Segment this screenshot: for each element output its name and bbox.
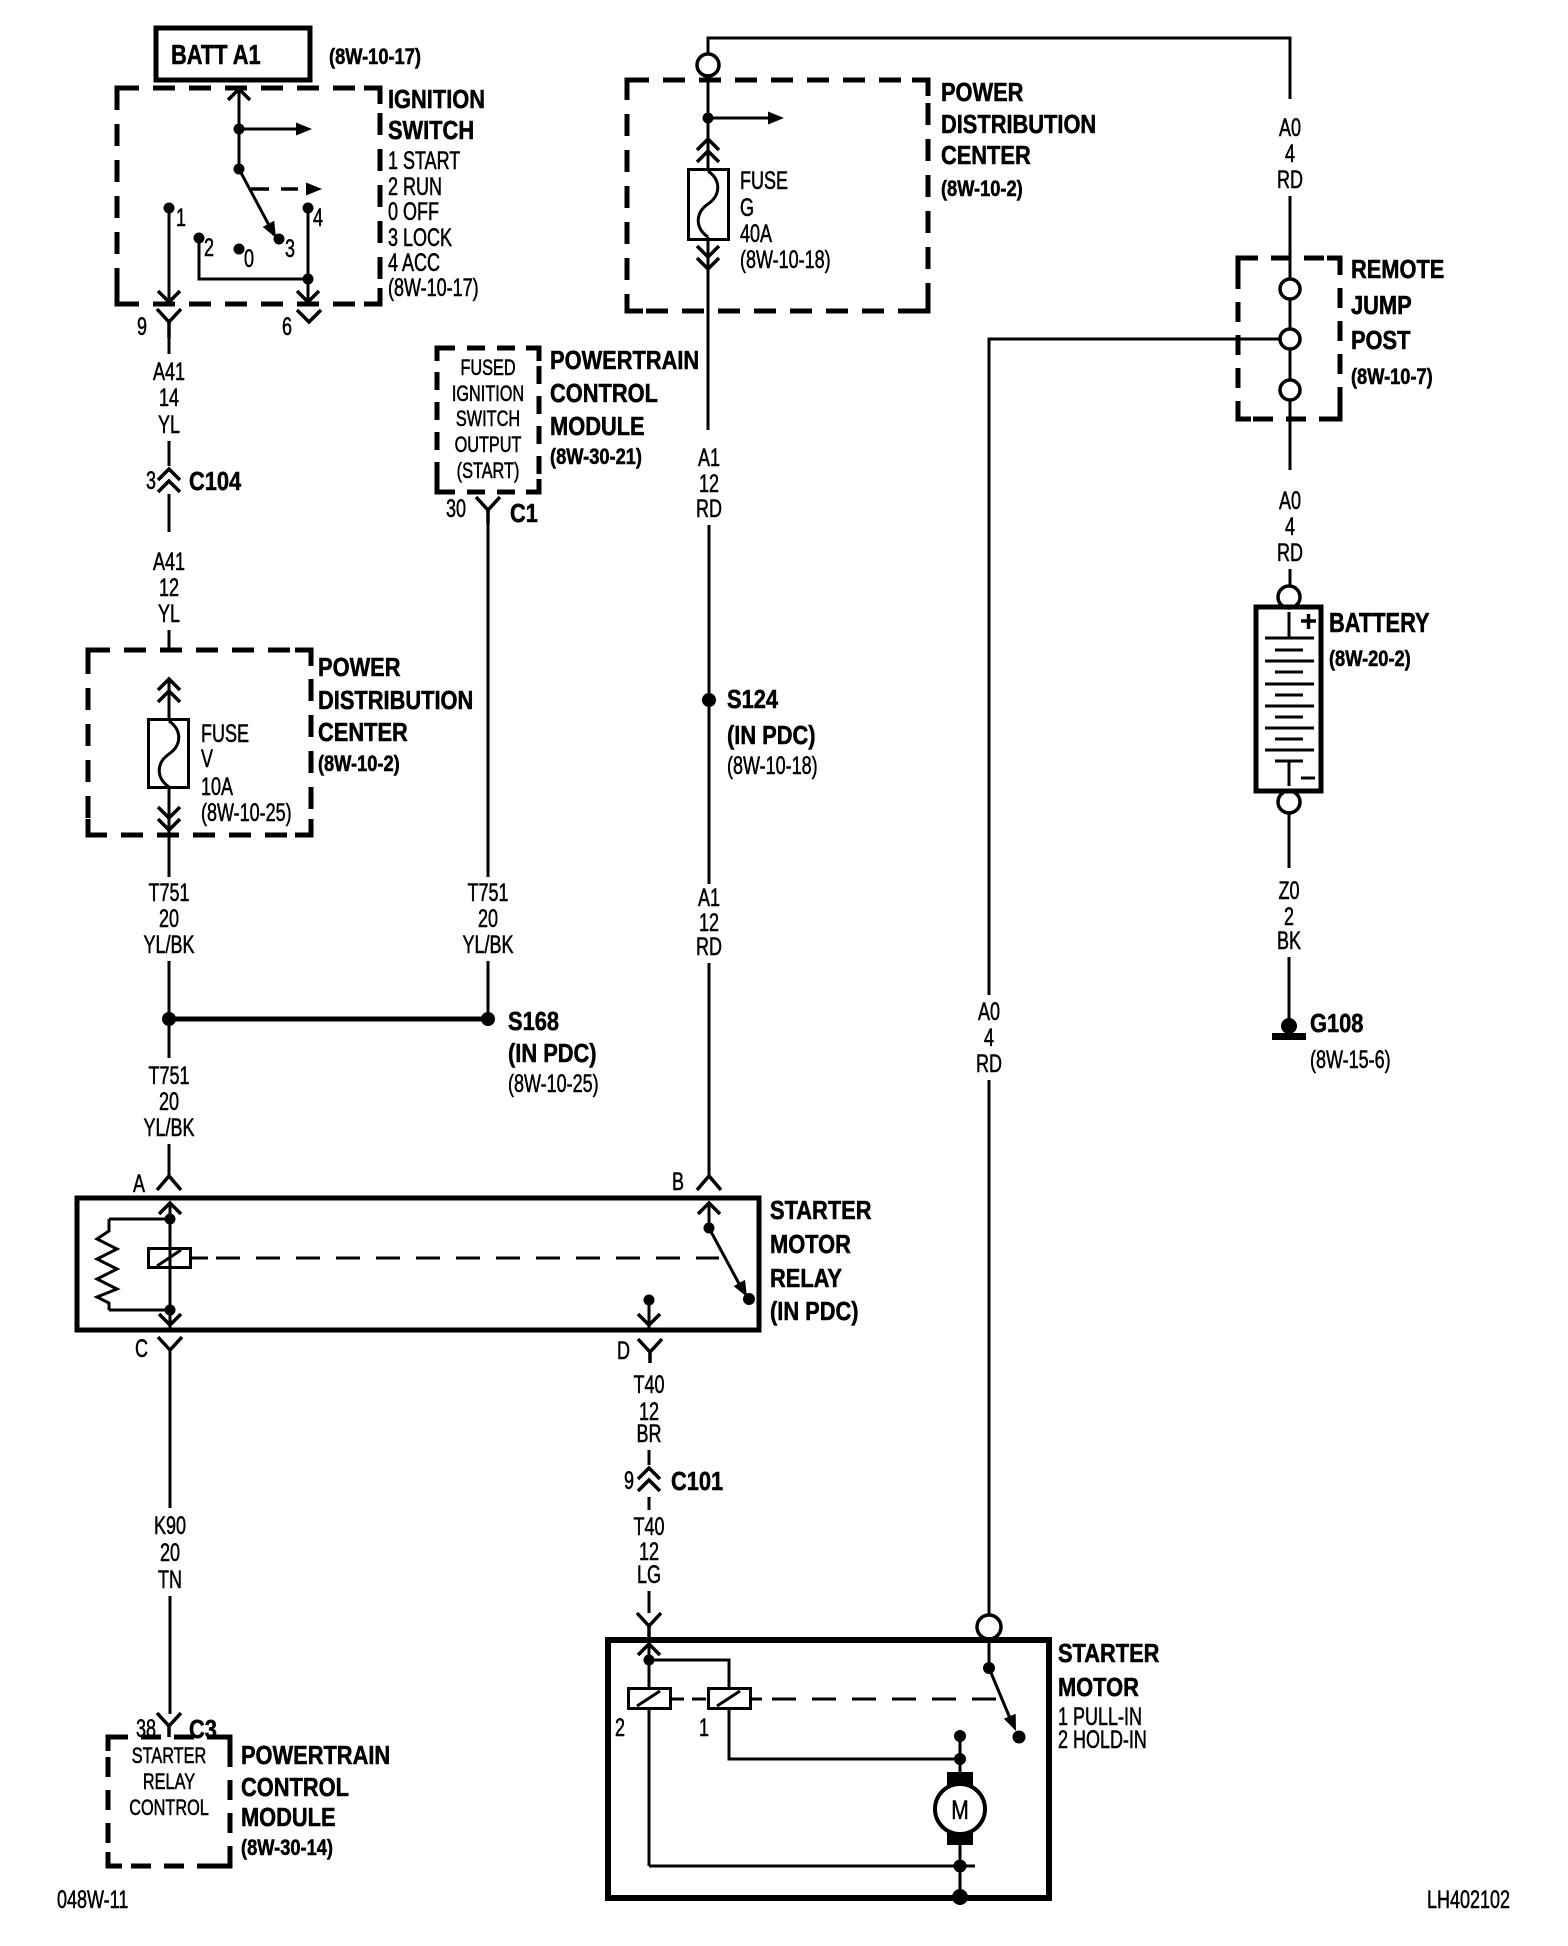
- remote jump post dashed outline: [1238, 258, 1340, 419]
- svg-text:G108: G108: [1310, 1009, 1363, 1038]
- connector C104: [158, 469, 180, 492]
- label ignition switch: [388, 85, 485, 301]
- wire contact 1 to pin 9: [158, 208, 180, 302]
- svg-text:3: 3: [146, 466, 156, 495]
- splice S124: [702, 693, 716, 707]
- relay pin B entry: [698, 1203, 720, 1228]
- wire A0 to starter motor: [988, 1080, 991, 1615]
- svg-text:C104: C104: [189, 467, 242, 496]
- wire A0 below jump post: [1289, 400, 1292, 470]
- ignition switch wiper arm: [239, 169, 276, 238]
- svg-text:(8W-10-18): (8W-10-18): [740, 245, 831, 274]
- wire K90 to PCM: [169, 1596, 172, 1714]
- value label (8W-10-17) for BATT A1: [329, 46, 421, 70]
- wire out of fuse G: [707, 237, 710, 430]
- contact 4 of ignition switch: [303, 203, 314, 214]
- svg-text:0: 0: [244, 244, 254, 273]
- wire A1 to splice S124: [708, 525, 711, 693]
- relay pin D exit: [638, 1300, 660, 1330]
- wire hold-in coil to case ground: [649, 1708, 975, 1866]
- svg-text:IGNITION: IGNITION: [388, 85, 485, 114]
- starter motor M1: [935, 1772, 985, 1845]
- svg-text:20: 20: [160, 1538, 180, 1567]
- svg-text:4: 4: [1285, 139, 1295, 168]
- svg-text:RD: RD: [696, 932, 722, 961]
- svg-text:POST: POST: [1351, 326, 1411, 355]
- contact 0 of ignition switch: [234, 244, 245, 255]
- label remote jump post: [1351, 255, 1444, 389]
- wire label A0 4 RD (top right): [1277, 113, 1303, 194]
- svg-text:T751: T751: [468, 878, 509, 907]
- label S168 (IN PDC): [508, 1007, 599, 1097]
- connector pin B of starter motor relay: [697, 1176, 721, 1190]
- value label fuse G 40A: [740, 166, 831, 274]
- svg-text:BK: BK: [1277, 926, 1301, 955]
- connector pin A of starter motor relay: [157, 1176, 181, 1190]
- connector battery feed at PDC: [697, 54, 719, 76]
- svg-text:RD: RD: [696, 494, 722, 523]
- svg-text:S168: S168: [508, 1007, 559, 1036]
- svg-text:4: 4: [984, 1023, 994, 1052]
- svg-text:20: 20: [159, 1087, 179, 1116]
- svg-text:RELAY: RELAY: [143, 1770, 195, 1795]
- wire A0 to battery positive: [1289, 569, 1292, 586]
- wire T751 to splice: [168, 961, 171, 1013]
- wire motor to case ground: [959, 1845, 962, 1897]
- starter motor outline: [608, 1640, 1049, 1898]
- svg-text:(IN PDC): (IN PDC): [508, 1039, 597, 1068]
- svg-text:YL/BK: YL/BK: [143, 930, 194, 959]
- ignition switch dashed actuator arrow: [251, 183, 322, 196]
- starter motor case ground junction: [952, 1889, 968, 1905]
- hold-in coil 2 of starter solenoid: [629, 1689, 685, 1709]
- starter switch contact: [1013, 1731, 1026, 1744]
- label battery: [1329, 607, 1430, 671]
- svg-text:30: 30: [446, 494, 466, 523]
- wire Z0 to ground: [1288, 957, 1291, 1020]
- arrow feed tap: [708, 112, 784, 125]
- label starter motor relay: [770, 1196, 871, 1326]
- svg-text:T40: T40: [634, 1370, 665, 1399]
- relay pin D junction: [644, 1295, 655, 1306]
- relay switch contact: [743, 1293, 755, 1305]
- svg-text:1 START: 1 START: [388, 146, 460, 175]
- wire label T751 20 YL/BK (middle): [463, 878, 514, 959]
- svg-text:12: 12: [159, 573, 179, 602]
- wire T751 to splice S168: [487, 961, 490, 1013]
- junction ignition switch rotor: [234, 164, 245, 175]
- pull-in coil 1 of starter solenoid: [709, 1689, 763, 1709]
- wire label A41 12 YL: [153, 547, 185, 628]
- contact 1 of ignition switch: [164, 203, 175, 214]
- svg-text:K90: K90: [154, 1511, 186, 1540]
- svg-text:(8W-30-21): (8W-30-21): [550, 446, 642, 470]
- wire label A41 14 YL: [153, 357, 185, 439]
- label starter motor: [1058, 1639, 1159, 1753]
- wire A1 below S124: [708, 707, 711, 884]
- wire label K90 20 TN: [154, 1511, 186, 1594]
- svg-text:2 HOLD-IN: 2 HOLD-IN: [1058, 1725, 1147, 1754]
- connector into fuse V: [158, 679, 180, 702]
- solenoid actuation dashed link: [692, 1698, 999, 1701]
- connector into fuse G: [697, 139, 719, 162]
- pin 9 label of C101: [624, 1466, 634, 1495]
- svg-text:A0: A0: [978, 997, 1000, 1026]
- starter motor relay outline: [77, 1198, 759, 1330]
- svg-text:(8W-10-17): (8W-10-17): [329, 46, 421, 70]
- svg-text:RD: RD: [1277, 538, 1303, 567]
- starter solenoid input entry: [638, 1644, 660, 1689]
- svg-text:4: 4: [313, 203, 323, 232]
- pin C label: [135, 1334, 148, 1363]
- svg-text:40A: 40A: [740, 219, 772, 248]
- connector pin 9 of ignition switch: [157, 309, 181, 338]
- svg-text:STARTER: STARTER: [1058, 1639, 1159, 1668]
- svg-text:(8W-10-25): (8W-10-25): [508, 1069, 599, 1098]
- pin D label: [617, 1336, 630, 1365]
- sheet code LH402102: [1427, 1885, 1510, 1914]
- svg-text:(8W-10-17): (8W-10-17): [388, 273, 479, 302]
- label power distribution center (left): [318, 653, 473, 776]
- label fused ignition switch output (start): [452, 356, 524, 484]
- svg-text:T751: T751: [148, 878, 189, 907]
- svg-text:V: V: [201, 744, 213, 773]
- svg-text:MOTOR: MOTOR: [1058, 1673, 1139, 1702]
- svg-text:DISTRIBUTION: DISTRIBUTION: [318, 686, 473, 715]
- connector pin C of starter motor relay: [158, 1337, 182, 1350]
- svg-text:SWITCH: SWITCH: [388, 116, 474, 145]
- value label fuse V 10A: [201, 719, 292, 827]
- connector out of fuse G: [697, 246, 719, 269]
- svg-text:10A: 10A: [201, 772, 233, 801]
- junction contacts 2 and 4: [303, 274, 314, 285]
- svg-text:(8W-10-18): (8W-10-18): [727, 751, 818, 780]
- svg-text:YL: YL: [158, 599, 180, 628]
- wire A41 into PDC: [168, 630, 171, 651]
- pin B label: [672, 1167, 684, 1196]
- svg-text:A1: A1: [698, 443, 720, 472]
- label starter relay control: [129, 1744, 209, 1821]
- svg-text:IGNITION: IGNITION: [452, 382, 524, 407]
- wire between jump post terminals 1-2: [1289, 299, 1292, 329]
- svg-text:T751: T751: [148, 1061, 189, 1090]
- wire A0 to remote jump post: [1289, 196, 1292, 279]
- svg-text:OUTPUT: OUTPUT: [455, 433, 522, 458]
- battery feed box BATT A1: [156, 28, 310, 80]
- svg-text:REMOTE: REMOTE: [1351, 255, 1444, 284]
- contact 3 of ignition switch: [274, 234, 285, 245]
- wire into fuse V: [168, 679, 171, 720]
- pin A label: [133, 1169, 145, 1198]
- svg-text:DISTRIBUTION: DISTRIBUTION: [941, 110, 1096, 139]
- svg-text:A0: A0: [1279, 113, 1301, 142]
- label C1: [510, 499, 538, 528]
- svg-text:A41: A41: [153, 547, 185, 576]
- svg-text:B: B: [672, 1167, 684, 1196]
- pin 3 label of C104: [146, 466, 156, 495]
- svg-text:C1: C1: [510, 499, 538, 528]
- svg-text:(8W-15-6): (8W-15-6): [1310, 1045, 1391, 1074]
- svg-text:POWER: POWER: [941, 78, 1023, 107]
- pin 9 label: [137, 312, 147, 341]
- resistor of starter motor relay: [97, 1219, 170, 1310]
- connector pin 6 of ignition switch: [297, 310, 321, 322]
- svg-text:6: 6: [282, 312, 292, 341]
- svg-text:Z0: Z0: [1279, 876, 1300, 905]
- wire T40 to starter motor: [648, 1591, 651, 1613]
- svg-text:1: 1: [699, 1713, 709, 1742]
- remote jump post terminal 3: [1280, 380, 1300, 400]
- svg-text:CENTER: CENTER: [318, 718, 408, 747]
- battery B1 body: [1256, 607, 1321, 791]
- connector out of fuse V: [158, 807, 180, 830]
- svg-text:BATT A1: BATT A1: [171, 39, 261, 70]
- wire battery feed top: [708, 38, 1290, 99]
- label G108: [1310, 1009, 1391, 1073]
- svg-text:G: G: [740, 193, 754, 222]
- wire label A0 4 RD (right middle): [1277, 486, 1303, 567]
- starter motor contact: [954, 1730, 966, 1742]
- svg-text:3: 3: [285, 234, 295, 263]
- fused ignition switch output dashed outline: [437, 348, 539, 492]
- ground G108: [1272, 1018, 1306, 1040]
- svg-text:POWER: POWER: [318, 653, 400, 682]
- contact 2 of ignition switch: [194, 233, 205, 244]
- svg-text:CONTROL: CONTROL: [241, 1773, 349, 1802]
- svg-text:0 OFF: 0 OFF: [388, 197, 439, 226]
- wire ignition switch feed to BATT A1: [228, 88, 250, 129]
- relay coil upper junction: [165, 1214, 176, 1225]
- svg-text:MODULE: MODULE: [550, 412, 645, 441]
- svg-text:BR: BR: [637, 1419, 662, 1448]
- svg-text:2: 2: [615, 1713, 625, 1742]
- wire ignition switch rotor: [238, 129, 241, 169]
- wire label A1 12 RD (lower): [696, 883, 722, 961]
- svg-text:FUSED: FUSED: [460, 356, 515, 381]
- connector pin D of starter motor relay: [638, 1339, 662, 1363]
- wire motor branch: [959, 1736, 962, 1772]
- svg-text:20: 20: [159, 904, 179, 933]
- pin label 2: [204, 233, 214, 262]
- label C104: [189, 467, 242, 496]
- svg-text:FUSE: FUSE: [740, 166, 788, 195]
- svg-text:JUMP: JUMP: [1351, 291, 1412, 320]
- connector C1 pin 30: [476, 497, 500, 524]
- svg-text:STARTER: STARTER: [132, 1744, 206, 1769]
- junction motor and hold-in ground: [954, 1860, 967, 1873]
- wire splice link to S168: [169, 1017, 488, 1022]
- wire contact 4 to pin 6: [297, 208, 319, 302]
- svg-text:TN: TN: [158, 1565, 182, 1594]
- svg-text:A41: A41: [153, 357, 185, 386]
- pin 38 label: [136, 1714, 156, 1743]
- svg-text:(8W-10-2): (8W-10-2): [941, 178, 1023, 202]
- wire A41 to C104: [168, 441, 171, 466]
- wire pull-in coil to motor branch: [729, 1708, 954, 1759]
- wire K90 from relay pin C: [169, 1350, 172, 1508]
- pin label 0: [244, 244, 254, 273]
- svg-text:C3: C3: [189, 1715, 217, 1744]
- sheet number 048W-11: [57, 1885, 128, 1914]
- relay switch pivot: [704, 1223, 715, 1234]
- svg-text:MOTOR: MOTOR: [770, 1230, 851, 1259]
- arrow ignition switch run feed: [239, 123, 312, 136]
- wire T751 to relay pin A: [168, 1144, 171, 1176]
- wire between jump post terminals 2-3: [1289, 349, 1292, 380]
- powertrain control module input dashed outline: [108, 1737, 230, 1866]
- fuse G body: [689, 170, 729, 240]
- svg-text:YL/BK: YL/BK: [463, 930, 514, 959]
- relay switch arm: [709, 1228, 747, 1297]
- svg-text:LH402102: LH402102: [1427, 1885, 1510, 1914]
- svg-text:20: 20: [478, 904, 498, 933]
- svg-text:POWERTRAIN: POWERTRAIN: [241, 1741, 390, 1770]
- svg-text:CONTROL: CONTROL: [129, 1796, 209, 1821]
- svg-text:C: C: [135, 1334, 148, 1363]
- pin label 4: [313, 203, 323, 232]
- wire tap to starter motor feed: [989, 339, 1280, 995]
- relay coil wire: [169, 1219, 172, 1310]
- power distribution center dashed outline (top): [627, 80, 928, 311]
- power distribution center dashed outline (left): [88, 650, 311, 835]
- wire A41 from pin 9: [168, 338, 171, 354]
- wire label T40 12 LG: [634, 1512, 665, 1589]
- label powertrain control module (bottom): [241, 1741, 390, 1860]
- pin label 3: [285, 234, 295, 263]
- label C3: [189, 1715, 217, 1744]
- relay actuation dashed link: [216, 1257, 719, 1260]
- svg-text:D: D: [617, 1336, 630, 1365]
- svg-text:(8W-30-14): (8W-30-14): [241, 1837, 333, 1861]
- splice S168: [481, 1012, 495, 1026]
- pin 30 label: [446, 494, 466, 523]
- svg-text:2: 2: [204, 233, 214, 262]
- wire label T751 20 YL/BK (upper left): [143, 878, 194, 959]
- svg-text:(8W-20-2): (8W-20-2): [1329, 648, 1411, 672]
- relay pin A entry: [159, 1203, 181, 1219]
- svg-text:RELAY: RELAY: [770, 1264, 842, 1293]
- svg-text:S124: S124: [727, 685, 779, 714]
- fuse V body: [149, 720, 189, 788]
- wire T751 from C1: [487, 524, 490, 877]
- pin 6 label: [282, 312, 292, 341]
- battery negative terminal: [1278, 791, 1300, 813]
- svg-text:YL/BK: YL/BK: [143, 1113, 194, 1142]
- svg-text:048W-11: 048W-11: [57, 1885, 128, 1914]
- pin label 1 pull-in: [699, 1713, 709, 1742]
- remote jump post terminal 1: [1280, 279, 1300, 299]
- svg-text:BATTERY: BATTERY: [1329, 607, 1430, 638]
- wire feed to fuse G: [707, 76, 710, 170]
- battery positive terminal: [1278, 586, 1300, 608]
- svg-text:LG: LG: [637, 1560, 661, 1589]
- svg-text:RD: RD: [976, 1049, 1002, 1078]
- svg-text:CONTROL: CONTROL: [550, 379, 658, 408]
- relay coil lower junction: [165, 1305, 176, 1316]
- connector battery terminal of starter motor: [977, 1615, 1001, 1639]
- svg-text:STARTER: STARTER: [770, 1196, 871, 1225]
- wire label T40 12 BR: [634, 1370, 665, 1448]
- wire T751 below splice: [168, 1026, 171, 1058]
- solenoid input junction: [644, 1655, 655, 1666]
- label power distribution center (top): [941, 78, 1096, 201]
- svg-text:CENTER: CENTER: [941, 141, 1031, 170]
- starter switch arm: [989, 1668, 1016, 1731]
- svg-text:9: 9: [624, 1466, 634, 1495]
- svg-text:C101: C101: [671, 1467, 723, 1496]
- svg-text:4: 4: [1285, 512, 1295, 541]
- connector starter motor solenoid input: [637, 1613, 661, 1640]
- svg-text:SWITCH: SWITCH: [456, 407, 520, 432]
- svg-text:9: 9: [137, 312, 147, 341]
- label S124 (IN PDC): [727, 685, 818, 779]
- label C101: [671, 1467, 723, 1496]
- wire label A0 4 RD (starter feed): [976, 997, 1002, 1078]
- svg-text:(8W-10-2): (8W-10-2): [318, 753, 400, 777]
- wire T40 to C101: [648, 1450, 651, 1465]
- svg-text:(START): (START): [457, 459, 520, 484]
- svg-text:(IN PDC): (IN PDC): [727, 721, 816, 750]
- svg-text:14: 14: [159, 383, 179, 412]
- svg-text:YL: YL: [158, 410, 180, 439]
- svg-text:A0: A0: [1279, 486, 1301, 515]
- svg-text:M: M: [951, 1796, 969, 1826]
- wire A1 to relay pin B: [708, 963, 711, 1176]
- wire label Z0 2 BK: [1277, 876, 1301, 955]
- wire A41 below C104: [168, 494, 171, 532]
- splice junction left: [162, 1012, 176, 1026]
- wire out of fuse V: [168, 786, 171, 877]
- svg-text:A: A: [133, 1169, 145, 1198]
- svg-text:(IN PDC): (IN PDC): [770, 1297, 859, 1326]
- junction pull-in coil and motor: [954, 1753, 966, 1765]
- connector C101: [638, 1468, 660, 1491]
- svg-text:POWERTRAIN: POWERTRAIN: [550, 346, 699, 375]
- pin label 1: [176, 203, 186, 232]
- wire T40 from relay pin D: [649, 1352, 652, 1363]
- wire Z0 from battery negative: [1288, 813, 1291, 868]
- ignition switch S1 dashed outline: [117, 88, 380, 304]
- starter switch wire: [988, 1639, 991, 1668]
- svg-text:RD: RD: [1277, 165, 1303, 194]
- wire contact 2 to junction: [199, 238, 308, 279]
- label powertrain control module (top): [550, 346, 699, 469]
- wire label T751 20 YL/BK (lower left): [143, 1061, 194, 1142]
- svg-text:(8W-10-7): (8W-10-7): [1351, 366, 1433, 390]
- remote jump post terminal 2: [1280, 329, 1300, 349]
- junction ignition switch feed upper: [234, 124, 245, 135]
- wire label A1 12 RD (upper): [696, 443, 722, 523]
- svg-text:(8W-10-25): (8W-10-25): [201, 798, 292, 827]
- starter switch pivot: [983, 1662, 995, 1674]
- junction feed tap: [703, 113, 714, 124]
- relay pin C exit: [159, 1310, 181, 1330]
- wire to pull-in coil: [649, 1660, 729, 1689]
- svg-text:1: 1: [176, 203, 186, 232]
- svg-text:MODULE: MODULE: [241, 1803, 336, 1832]
- wire T40 below C101: [648, 1497, 651, 1510]
- coil of starter motor relay K1: [149, 1249, 209, 1268]
- pin label 2 hold-in: [615, 1713, 625, 1742]
- connector C3 pin 38: [157, 1713, 181, 1737]
